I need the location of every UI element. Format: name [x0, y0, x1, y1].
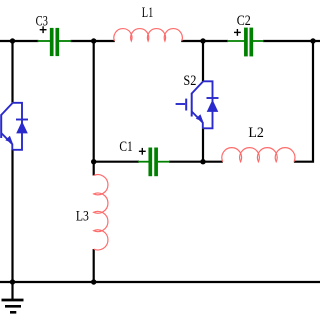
S2 gate bar [185, 99, 187, 111]
S2 collector lead [192, 82, 203, 94]
wire second vertical [93, 41, 95, 176]
svg-text:L1: L1 [142, 5, 154, 21]
inductor L1 [114, 29, 183, 41]
wire C3 to L1 [71, 40, 115, 42]
node C1-L3 [91, 159, 96, 164]
S2 emitter lead [192, 112, 203, 129]
wire C2 to right edge [263, 40, 320, 42]
inductor L2 [222, 148, 295, 162]
wire middle vertical above S2 [202, 41, 204, 81]
svg-text:C3: C3 [36, 14, 48, 30]
wire top left edge to C3 [0, 40, 39, 42]
wire L2 to right corner [294, 41, 313, 162]
wire left vertical lower [11, 150, 13, 283]
S2 body bar [191, 93, 193, 117]
capacitor C3 [38, 28, 72, 56]
inductor L3 [94, 175, 108, 250]
S1 collector lead [1, 103, 12, 115]
wire bottom rail [0, 281, 320, 283]
plus C3 [40, 26, 47, 33]
node L1-C2 [200, 38, 205, 43]
wire L3 to bottom [93, 249, 95, 282]
svg-text:C2: C2 [237, 13, 251, 29]
S2 diode cathode bar [207, 97, 219, 99]
svg-text:C1: C1 [119, 139, 132, 155]
wire C1 to S2 junction [169, 161, 223, 163]
plus C2 [234, 29, 241, 36]
svg-text:L2: L2 [248, 125, 264, 141]
S1 anti-parallel diode branch [13, 103, 23, 150]
node C3-L1 [91, 38, 96, 43]
S1 diode triangle [16, 121, 28, 133]
node ground [10, 279, 15, 284]
S2 emitter arrow [196, 114, 203, 121]
node S2-L2 [200, 159, 205, 164]
wire left vertical upper [11, 41, 13, 103]
svg-text:L3: L3 [76, 208, 89, 224]
S2 anti-parallel diode branch [203, 81, 213, 128]
ground [2, 300, 24, 312]
S1 emitter arrow [5, 136, 12, 143]
node top-right [310, 38, 315, 43]
capacitor C1 [138, 148, 170, 177]
plus C1 [139, 148, 146, 155]
wire middle vertical below S2 [202, 128, 204, 161]
node top-left [10, 38, 15, 43]
svg-text:S2: S2 [183, 73, 196, 89]
S2 gate lead [176, 103, 186, 105]
wire C1 junction to C1 [94, 161, 139, 163]
S1 body bar [0, 114, 2, 138]
S1 diode cathode bar [16, 119, 28, 121]
S1 emitter lead [1, 133, 12, 150]
transistor S2 (IGBT with diode) [176, 81, 219, 128]
wire ground stub [11, 282, 13, 299]
S2 diode triangle [207, 100, 219, 112]
capacitor C2 [227, 28, 264, 57]
transistor S1 (IGBT with diode, partially off left edge) [0, 103, 28, 150]
node L3-bottom [91, 279, 96, 284]
wire L1 to C2 [181, 40, 228, 42]
